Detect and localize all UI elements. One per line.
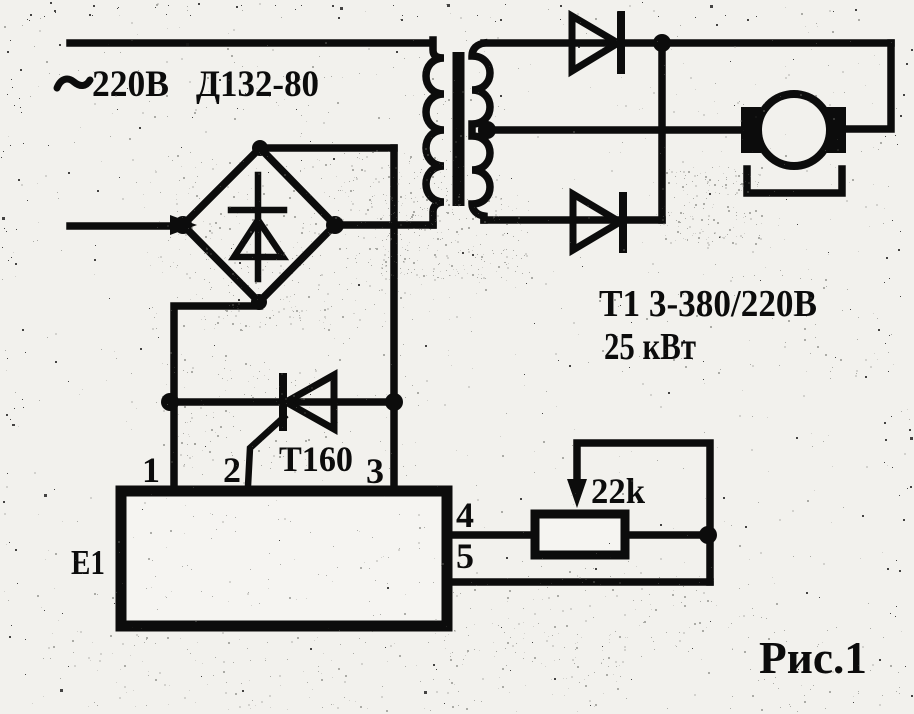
wire secondary top to diodes bbox=[484, 39, 891, 47]
junction thyristor right node bbox=[385, 393, 403, 411]
svg-text:22k: 22k bbox=[591, 471, 645, 511]
potentiometer wiper arrow bbox=[567, 479, 587, 508]
transformer T1 primary winding bbox=[426, 40, 444, 225]
svg-text:5: 5 bbox=[456, 536, 474, 576]
wire bridge top output bbox=[260, 144, 394, 152]
junction transformer center tap bbox=[478, 121, 496, 139]
svg-text:Т160: Т160 bbox=[279, 439, 353, 479]
bridge inner diode symbol bbox=[231, 175, 284, 279]
wire vertical bridge plus bus bbox=[390, 148, 398, 486]
motor brush left bbox=[741, 107, 761, 153]
wire thyristor anode line bbox=[170, 398, 394, 406]
bridge rectifier diamond bbox=[183, 148, 335, 302]
label AC tilde symbol bbox=[57, 79, 90, 88]
diode VD2 bottom bbox=[573, 194, 623, 250]
motor brush right bbox=[826, 107, 846, 153]
transformer core bbox=[456, 55, 462, 203]
transformer T1 secondary winding bbox=[472, 43, 490, 220]
diode VD1 top bbox=[572, 15, 621, 71]
wire potentiometer output bbox=[629, 531, 708, 539]
junction top diode node bbox=[653, 34, 671, 52]
wire secondary bottom to lower diode bbox=[484, 216, 662, 224]
wire right vertical to motor bbox=[845, 43, 891, 129]
svg-text:25 кВт: 25 кВт bbox=[604, 326, 696, 368]
junction bridge bottom node bbox=[251, 294, 267, 310]
potentiometer R1 body bbox=[535, 514, 625, 555]
wire terminal 4 bbox=[452, 531, 531, 539]
junction bridge left node bbox=[170, 215, 197, 235]
svg-text:Рис.1: Рис.1 bbox=[759, 632, 867, 683]
svg-text:4: 4 bbox=[456, 495, 474, 535]
junction bridge right node bbox=[326, 216, 344, 234]
svg-text:220В: 220В bbox=[92, 64, 169, 105]
wire top AC line bbox=[70, 39, 429, 47]
svg-text:1: 1 bbox=[142, 450, 160, 490]
svg-text:Д132-80: Д132-80 bbox=[196, 64, 319, 105]
thyristor VS1 T160 bbox=[248, 375, 334, 486]
wire primary bottom to bridge bbox=[335, 221, 433, 229]
wire vertical diode cathode bus bbox=[658, 43, 666, 220]
junction thyristor left node bbox=[161, 393, 179, 411]
wire potentiometer top loop bbox=[577, 443, 710, 582]
motor M armature circle bbox=[758, 94, 830, 166]
wire AC lower left segment bbox=[70, 222, 180, 230]
svg-text:3: 3 bbox=[366, 451, 384, 491]
wire terminal 5 bbox=[452, 578, 710, 586]
svg-text:Т1 3-380/220В: Т1 3-380/220В bbox=[599, 283, 817, 325]
wire bridge bottom output bbox=[174, 302, 259, 486]
motor bracket bbox=[747, 169, 842, 193]
block E1 control box bbox=[121, 491, 447, 626]
svg-text:Е1: Е1 bbox=[71, 543, 105, 582]
junction bridge top node bbox=[252, 140, 268, 156]
junction potentiometer output node bbox=[699, 526, 717, 544]
wire center tap to motor bbox=[482, 126, 743, 134]
